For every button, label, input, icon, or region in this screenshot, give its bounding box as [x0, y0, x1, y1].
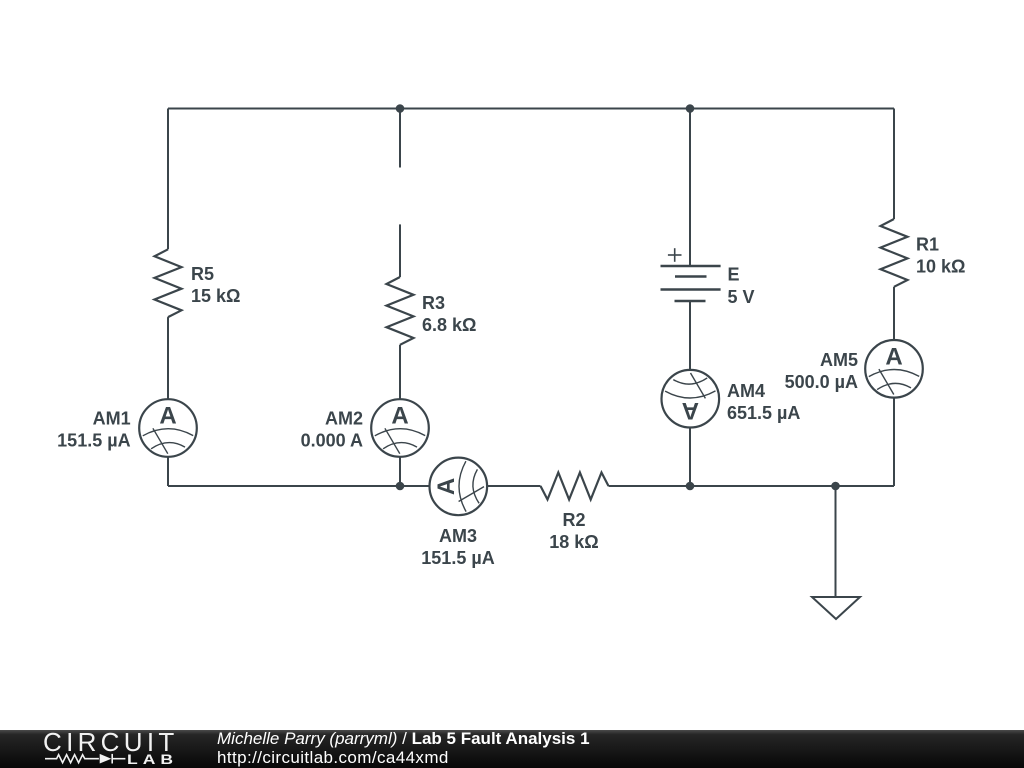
- svg-text:AM5: AM5: [820, 350, 858, 370]
- ground symbol: [812, 597, 860, 619]
- svg-text:0.000 A: 0.000 A: [301, 431, 363, 451]
- svg-text:500.0 µA: 500.0 µA: [785, 372, 858, 392]
- battery E plates: [661, 266, 721, 301]
- svg-text:LAB: LAB: [127, 751, 178, 767]
- wire R1 to AM5: [893, 287, 895, 340]
- wire bottom horizontal left: [168, 485, 430, 487]
- resistor R5: [155, 249, 182, 317]
- wire R2 to right corner: [609, 485, 895, 487]
- ammeter AM4: [662, 370, 720, 428]
- wire R3 to AM2: [399, 345, 401, 399]
- resistor R2: [541, 473, 609, 500]
- wire left branch upper: [167, 109, 169, 250]
- svg-text:AM4: AM4: [727, 381, 765, 401]
- footer caption: [217, 729, 590, 767]
- wire ground stem: [835, 486, 837, 597]
- CircuitLab logo wordmark: [0, 728, 210, 768]
- svg-text:151.5 µA: 151.5 µA: [57, 431, 130, 451]
- svg-text:651.5 µA: 651.5 µA: [727, 403, 800, 423]
- svg-text:10 kΩ: 10 kΩ: [916, 257, 965, 277]
- svg-text:R3: R3: [422, 293, 445, 313]
- wire AM5 to bottom corner: [893, 398, 895, 486]
- svg-text:18 kΩ: 18 kΩ: [549, 532, 598, 552]
- svg-text:E: E: [728, 265, 740, 285]
- resistor R3: [387, 277, 414, 345]
- battery plus sign: [668, 248, 682, 262]
- wire middle branch upper (broken above): [399, 109, 401, 168]
- svg-text:AM2: AM2: [325, 409, 363, 429]
- node dot top middle: [396, 104, 405, 113]
- logo resistor+diode glyph: [45, 754, 125, 764]
- wire R5 to AM1: [167, 317, 169, 399]
- svg-text:15 kΩ: 15 kΩ: [191, 286, 240, 306]
- svg-text:R2: R2: [562, 510, 585, 530]
- wire top horizontal: [168, 108, 894, 110]
- footer bar: [0, 730, 1024, 768]
- wire AM1 to bottom: [167, 457, 169, 486]
- node dot bottom battery: [686, 482, 695, 491]
- wire battery branch upper: [689, 109, 691, 267]
- wire battery to AM4: [689, 301, 691, 370]
- svg-text:AM3: AM3: [439, 526, 477, 546]
- wire AM2 to bottom: [399, 457, 401, 486]
- node dot bottom middle: [396, 482, 405, 491]
- node dot ground: [831, 482, 840, 491]
- svg-text:AM1: AM1: [93, 409, 131, 429]
- resistor R1: [881, 219, 908, 287]
- node dot top battery: [686, 104, 695, 113]
- svg-text:151.5 µA: 151.5 µA: [421, 548, 494, 568]
- wire middle branch lower segment to R3: [399, 224, 401, 277]
- wire AM3 to R2: [487, 485, 540, 487]
- svg-text:R1: R1: [916, 235, 939, 255]
- wire AM4 to bottom: [689, 428, 691, 486]
- wire right branch upper: [893, 109, 895, 220]
- svg-text:5 V: 5 V: [728, 287, 755, 307]
- ammeter AM1: [139, 399, 197, 457]
- ammeter AM3: [430, 458, 488, 516]
- svg-text:R5: R5: [191, 264, 214, 284]
- ammeter AM5: [865, 340, 923, 398]
- svg-text:6.8 kΩ: 6.8 kΩ: [422, 315, 476, 335]
- ammeter AM2: [371, 399, 429, 457]
